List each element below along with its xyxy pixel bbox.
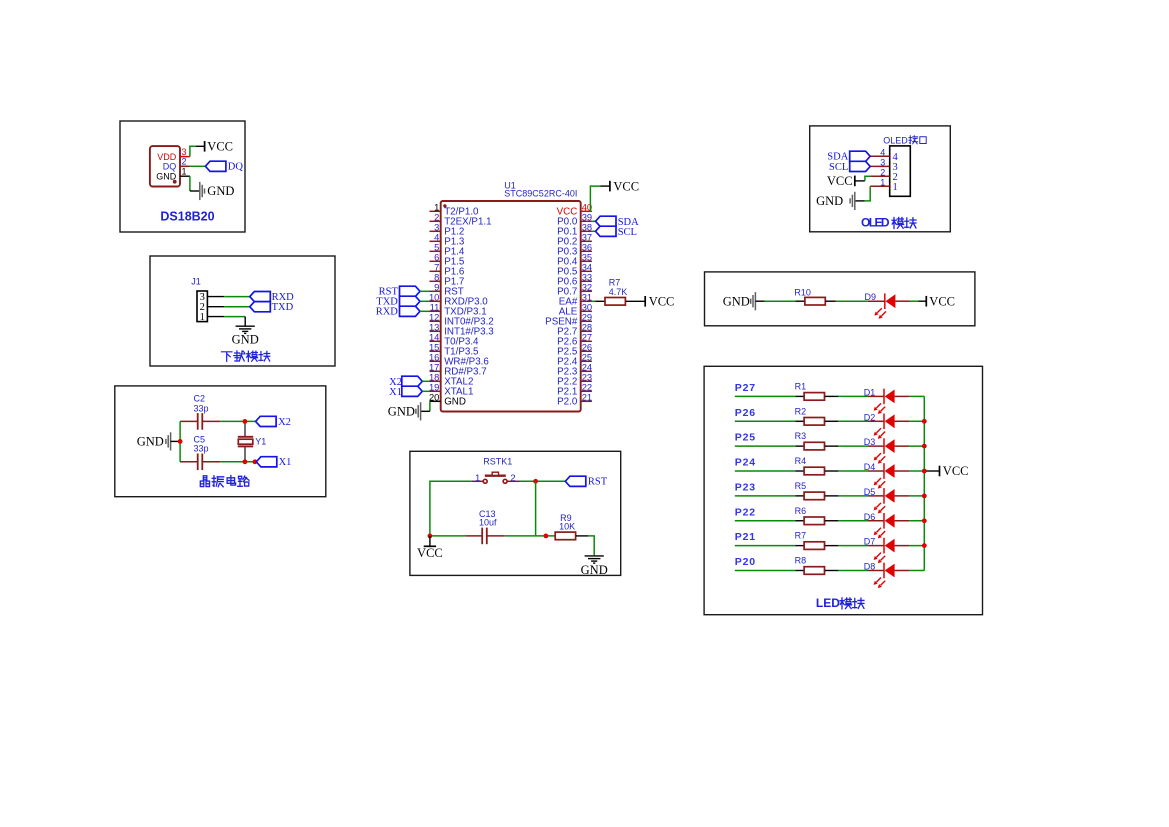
wire P27 to R1 (735, 395, 796, 397)
wire P26 to R2 (735, 420, 796, 422)
svg-text:VCC: VCC (827, 174, 853, 188)
wire P21 to R7 (735, 545, 796, 547)
wire R6 to D6 (838, 520, 868, 522)
svg-text:GND: GND (388, 405, 415, 419)
resistor R1 (795, 395, 803, 397)
wire GND to R10 (765, 300, 796, 302)
svg-text:RSTK1: RSTK1 (483, 456, 512, 466)
wire pin1 to GND (189, 176, 191, 191)
wire D4 to bus (909, 470, 924, 472)
wire pin3 to VCC (190, 146, 196, 156)
svg-text:1: 1 (475, 473, 480, 484)
pin 3 stub (180, 156, 190, 158)
svg-text:OLED: OLED (861, 216, 890, 230)
svg-text:33p: 33p (194, 403, 209, 413)
wire pin20 to GND (429, 401, 431, 411)
port RST (565, 476, 586, 486)
resistor R5 (795, 495, 803, 497)
svg-text:R3: R3 (795, 431, 807, 441)
svg-text:VCC: VCC (207, 140, 233, 154)
svg-text:1: 1 (893, 182, 898, 193)
U1 pin 29 (PSEN#) (581, 320, 592, 322)
U1 pin 15 (T1/P3.5) (430, 350, 441, 352)
port TXD (250, 302, 270, 312)
svg-text:RXD: RXD (376, 307, 399, 318)
junction (922, 444, 927, 449)
junction (922, 469, 927, 474)
svg-text:X1: X1 (279, 457, 292, 468)
wire R2 to D2 (838, 420, 868, 422)
wire R1 to D1 (838, 395, 868, 397)
wire X2 (422, 380, 429, 382)
power VCC (429, 536, 431, 546)
U1 pin 25 (P2.4) (581, 360, 592, 362)
junction (243, 419, 248, 424)
U1 pin 16 (WR#/P3.6) (430, 360, 441, 362)
wire R4 to D4 (838, 470, 868, 472)
LED D1 (868, 395, 884, 397)
svg-text:P21: P21 (735, 531, 756, 543)
wire vcc branch (430, 481, 472, 536)
svg-text:R1: R1 (795, 381, 807, 391)
svg-text:X1: X1 (389, 387, 402, 398)
OLED pin 4 (870, 155, 890, 157)
OLED module border (810, 126, 951, 232)
reset module border (410, 451, 621, 575)
U1 pin 39 (P0.0) (581, 220, 592, 222)
resistor R8 (795, 569, 803, 571)
junction (428, 534, 433, 539)
resistor R9 (555, 532, 575, 540)
junction (533, 479, 538, 484)
svg-text:P25: P25 (735, 432, 756, 444)
DS18B20 module border (120, 121, 245, 232)
wire D5 to bus (909, 495, 924, 497)
svg-text:2: 2 (880, 167, 885, 177)
svg-text:GND: GND (723, 294, 750, 308)
wire R5 to D5 (838, 495, 868, 497)
svg-text:DS18B20: DS18B20 (160, 210, 214, 224)
switch RSTK1 (472, 480, 483, 482)
wire RST (420, 290, 430, 292)
U1 pin 36 (P0.3) (581, 250, 592, 252)
U1 pin 31 (EA#) (581, 300, 592, 302)
svg-text:VDD: VDD (157, 152, 177, 162)
svg-text:GND: GND (137, 435, 164, 449)
U1 pin 38 (P0.1) (581, 230, 592, 232)
LED D2 (868, 420, 884, 422)
wire pin1 to GND (224, 316, 245, 318)
svg-text:4: 4 (880, 147, 885, 157)
U1 pin 33 (P0.6) (581, 280, 592, 282)
wire D2 to bus (909, 420, 924, 422)
svg-text:RST: RST (588, 477, 608, 488)
LED D3 (868, 445, 884, 447)
U1 pin 27 (P2.6) (581, 340, 592, 342)
svg-text:TXD: TXD (272, 302, 294, 313)
U1 pin 14 (T0/P3.4) (430, 340, 441, 342)
svg-text:SCL: SCL (618, 227, 637, 238)
U1 pin 8 (P1.7) (430, 280, 441, 282)
LED D8 (868, 569, 884, 571)
svg-text:VCC: VCC (943, 464, 969, 478)
svg-text:1: 1 (182, 167, 187, 177)
svg-text:P20: P20 (735, 556, 756, 568)
LED D5 (868, 495, 884, 497)
svg-text:P2.0: P2.0 (557, 397, 578, 408)
svg-text:R2: R2 (795, 406, 807, 416)
J1 pin 1 stub (207, 316, 224, 318)
chip U1 body (441, 201, 581, 412)
power VCC (644, 296, 646, 307)
U1 pin 24 (P2.3) (581, 370, 592, 372)
wire pin31 to R7 (592, 300, 596, 302)
resistor R3 (795, 445, 803, 447)
wire C5 to X1 (220, 461, 256, 463)
svg-text:P24: P24 (735, 457, 756, 469)
U1 pin 19 (XTAL1) (430, 390, 441, 392)
wire vertical (535, 481, 537, 536)
ground GND (244, 317, 246, 327)
wire D9 to VCC (910, 300, 918, 302)
OLED pin 3 (870, 165, 890, 167)
port SDA (596, 216, 617, 226)
U1 pin 40 (VCC) (581, 210, 592, 212)
ground GND (855, 200, 865, 202)
J1 pin 2 stub (207, 306, 224, 308)
svg-text:VCC: VCC (417, 546, 443, 560)
wire R3 to D3 (838, 445, 868, 447)
wire P23 to R5 (735, 495, 796, 497)
wire pin2 to DQ port (190, 165, 206, 167)
svg-text:Y1: Y1 (255, 437, 266, 447)
power VCC (196, 145, 205, 147)
U1 pin 26 (P2.5) (581, 350, 592, 352)
wire RXD (420, 310, 430, 312)
svg-text:VCC: VCC (929, 294, 955, 308)
capacitor C2 (180, 420, 198, 422)
svg-text:LED: LED (816, 596, 840, 610)
port DQ (205, 161, 226, 171)
svg-text:33p: 33p (194, 444, 209, 454)
svg-text:4.7K: 4.7K (609, 287, 628, 297)
port X1 (256, 457, 277, 467)
svg-text:VCC: VCC (613, 179, 639, 193)
U1 pin 23 (P2.2) (581, 380, 592, 382)
ground GND (190, 190, 200, 192)
svg-text:P26: P26 (735, 407, 756, 419)
svg-text:GND: GND (444, 397, 466, 408)
junction (243, 459, 248, 464)
connector J1 body (197, 291, 207, 322)
resistor R4 (795, 470, 803, 472)
OLED pin 2 (870, 175, 890, 177)
wire TXD (420, 300, 430, 302)
port X2 (256, 416, 277, 426)
power VCC (919, 300, 927, 302)
download module border (150, 256, 335, 366)
wire P24 to R4 (735, 470, 796, 472)
U1 pin 1 (T2/P1.0) (430, 210, 441, 212)
svg-text:R4: R4 (795, 456, 807, 466)
label 晶振电路 (200, 476, 209, 487)
svg-text:10K: 10K (559, 521, 575, 531)
wire to TXD port (224, 306, 250, 308)
port RXD (250, 292, 270, 302)
wire VCC bus (923, 396, 925, 570)
crystal module border (115, 386, 326, 497)
U1 pin 3 (P1.2) (430, 230, 441, 232)
junction (922, 543, 927, 548)
wire D6 to bus (909, 520, 924, 522)
svg-text:2: 2 (510, 473, 515, 484)
svg-text:DQ: DQ (228, 162, 244, 173)
junction (922, 518, 927, 523)
wire C13 to R9 (505, 535, 555, 537)
U1 pin 37 (P0.2) (581, 240, 592, 242)
capacitor C13 (466, 535, 483, 537)
U1 pin 6 (P1.5) (430, 260, 441, 262)
resistor R2 (795, 420, 803, 422)
svg-text:R10: R10 (794, 288, 811, 298)
resistor R7 (596, 300, 605, 302)
label 下载模块 (222, 352, 232, 361)
port SCL (596, 226, 617, 236)
junction (178, 439, 183, 444)
OLED pin 1 (870, 185, 890, 187)
U1 pin 17 (RD#/P3.7) (430, 370, 441, 372)
junction (922, 419, 927, 424)
U1 pin 35 (P0.4) (581, 260, 592, 262)
DS18B20 sensor body (150, 146, 180, 186)
crystal Y1 (244, 421, 246, 436)
svg-text:GND: GND (581, 563, 608, 577)
wire switch to RST (520, 480, 566, 482)
wire R8 to D8 (838, 569, 868, 571)
svg-text:21: 21 (582, 391, 592, 402)
svg-text:J1: J1 (191, 276, 201, 286)
svg-text:P23: P23 (735, 481, 756, 493)
svg-text:10uf: 10uf (479, 517, 497, 527)
resistor R6 (795, 520, 803, 522)
U1 pin 21 (P2.0) (581, 400, 592, 402)
wire C2 to X2 (220, 420, 255, 422)
U1 pin 20 (GND) (430, 400, 441, 402)
ground GND (421, 410, 430, 412)
pin 1 stub (180, 175, 190, 177)
U1 pin 2 (T2EX/P1.1) (430, 220, 441, 222)
svg-text:C2: C2 (194, 394, 206, 404)
svg-text:X2: X2 (278, 417, 291, 428)
svg-text:GND: GND (156, 172, 177, 182)
svg-text:R5: R5 (795, 481, 807, 491)
svg-text:R7: R7 (795, 531, 807, 541)
svg-text:1: 1 (200, 312, 205, 323)
svg-text:DQ: DQ (163, 162, 177, 172)
wire pin38 to SCL (592, 230, 596, 232)
LED D7 (868, 545, 884, 547)
U1 pin 13 (INT1#/P3.3) (430, 330, 441, 332)
J1 pin 3 stub (207, 296, 224, 298)
resistor R7 (795, 545, 803, 547)
svg-text:VCC: VCC (649, 295, 675, 309)
wire pin1 to GND (865, 186, 871, 201)
wire P20 to R8 (735, 569, 796, 571)
svg-text:GND: GND (816, 194, 843, 208)
svg-text:R8: R8 (795, 555, 807, 565)
svg-text:STC89C52RC-40I: STC89C52RC-40I (504, 188, 577, 198)
U1 pin 10 (RXD/P3.0) (430, 300, 441, 302)
U1 pin 5 (P1.4) (430, 250, 441, 252)
wire R9 to GND (588, 536, 594, 555)
LED module border (704, 366, 982, 614)
LED D6 (868, 520, 884, 522)
wire D1 to bus (909, 395, 924, 397)
wire D3 to bus (909, 445, 924, 447)
LED D9 (868, 300, 885, 302)
U1 pin 32 (P0.7) (581, 290, 592, 292)
wire pin39 to SDA (592, 220, 596, 222)
svg-text:OLED: OLED (883, 136, 908, 146)
U1 pin 18 (XTAL2) (430, 380, 441, 382)
svg-text:P22: P22 (735, 506, 756, 518)
svg-text:R7: R7 (609, 278, 621, 288)
R10-D9 module border (705, 272, 975, 326)
wire gnd vertical (179, 421, 181, 461)
wire P22 to R6 (735, 520, 796, 522)
svg-text:R6: R6 (795, 506, 807, 516)
ground GND (585, 556, 604, 563)
power VCC (924, 470, 939, 472)
wire P25 to R3 (735, 445, 796, 447)
U1 pin 28 (P2.7) (581, 330, 592, 332)
U1 pin 12 (INT0#/P3.2) (430, 320, 441, 322)
pin 2 stub (180, 165, 190, 167)
junction (544, 534, 549, 539)
U1 pin 4 (P1.3) (430, 240, 441, 242)
power VCC (600, 185, 610, 187)
wire to RXD port (224, 296, 250, 298)
svg-text:SCL: SCL (829, 162, 848, 173)
capacitor C5 (180, 461, 198, 463)
U1 pin 22 (P2.1) (581, 390, 592, 392)
junction (253, 459, 258, 464)
svg-text:GND: GND (207, 184, 234, 198)
svg-text:P27: P27 (735, 382, 756, 394)
svg-text:D9: D9 (865, 292, 877, 302)
wire R10 to D9 (836, 300, 868, 302)
U1 pin 9 (RST) (430, 290, 441, 292)
wire VCC to pin2 (865, 176, 870, 181)
svg-text:1: 1 (880, 177, 885, 187)
svg-text:3: 3 (880, 157, 885, 167)
U1 pin 34 (P0.5) (581, 270, 592, 272)
U1 pin 7 (P1.6) (430, 270, 441, 272)
svg-text:20: 20 (429, 391, 439, 402)
wire pin40 to VCC (590, 186, 600, 211)
resistor R10 (795, 300, 804, 302)
LED D4 (868, 470, 884, 472)
wire R7 to D7 (838, 545, 868, 547)
svg-text:GND: GND (232, 332, 259, 346)
junction (922, 494, 927, 499)
wire X1 (422, 390, 429, 392)
wire D8 to bus (909, 569, 924, 571)
wire D7 to bus (909, 545, 924, 547)
U1 pin 30 (ALE) (581, 310, 592, 312)
connector OLED body (890, 146, 911, 196)
U1 pin 11 (TXD/P3.1) (430, 310, 441, 312)
svg-text:2: 2 (182, 157, 187, 167)
svg-text:3: 3 (182, 147, 187, 157)
